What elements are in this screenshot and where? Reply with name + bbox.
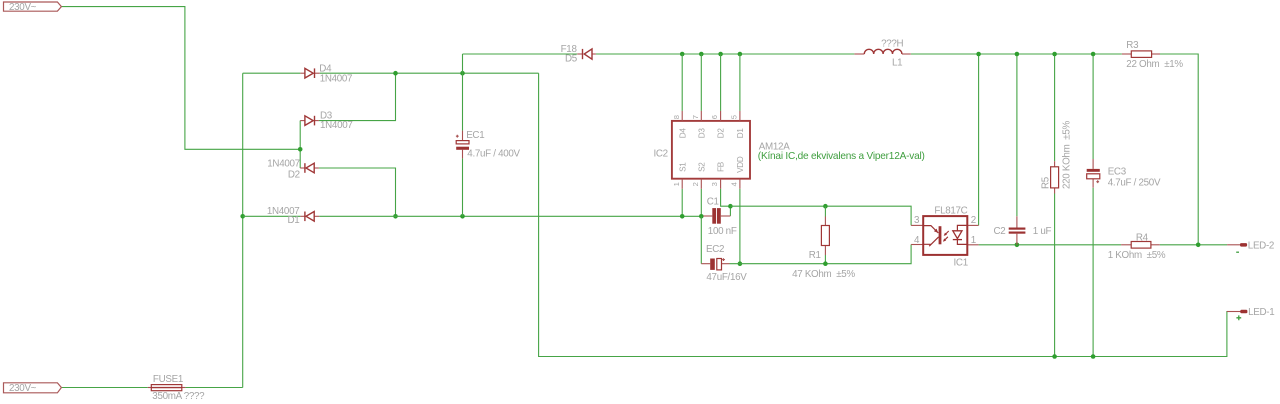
node drain rail junction pin5 <box>738 52 743 57</box>
svg-text:1 uF: 1 uF <box>1033 226 1052 237</box>
node D2/D1 junction <box>393 214 398 219</box>
svg-text:LED-2: LED-2 <box>1248 240 1274 251</box>
svg-text:???H: ???H <box>881 38 903 49</box>
pin 1 stub S1 <box>672 162 688 189</box>
wire left AC2 vertical from D4 line to fuse line <box>242 73 244 387</box>
svg-text:R1: R1 <box>809 250 821 261</box>
pin 2 stub IC1 <box>967 224 978 226</box>
svg-text:FL817C: FL817C <box>934 206 967 217</box>
wire D2 anode down to D1 line <box>319 168 396 216</box>
wire R4 right to LED-2 flag <box>1160 244 1227 246</box>
wire top switch rail from EC1 corner to D5 <box>463 53 578 55</box>
pin 8 stub D4 <box>672 111 688 138</box>
node R5 bottom rail junction <box>1052 354 1057 359</box>
resistor R5 220 KOhm <box>1040 120 1072 193</box>
wire C2 riser from rail <box>1016 54 1018 216</box>
node R3 branch on LED line <box>1196 243 1201 248</box>
wire FB net to R1 and opto pin3 <box>730 206 911 225</box>
wire IC2 S2 to ground bus <box>700 189 702 217</box>
wire D3 cathode up to D4 rail <box>319 73 396 120</box>
optocoupler IC1 body <box>923 216 967 255</box>
svg-text:4: 4 <box>914 235 920 246</box>
svg-text:1N4007: 1N4007 <box>320 74 353 85</box>
diode D3 1N4007 <box>300 110 352 131</box>
pin 5 stub D1 <box>730 111 746 138</box>
svg-text:S2: S2 <box>697 162 706 172</box>
supply flag 230V~ top <box>4 2 62 11</box>
diode D5 (F18) <box>561 44 596 65</box>
svg-text:D3: D3 <box>697 128 706 139</box>
wire D4 anode line from left vertical <box>243 72 301 74</box>
op-amp IC2 AM12A box <box>653 121 924 179</box>
inductor L1 ???H <box>854 38 910 68</box>
node R5 rail junction <box>1052 52 1057 57</box>
svg-text:4: 4 <box>730 182 739 186</box>
svg-text:D2: D2 <box>288 170 300 181</box>
wire EC3 bottom to LED- rail <box>1092 188 1094 357</box>
svg-text:8: 8 <box>672 115 681 119</box>
resistor R4 1 KOhm <box>1108 232 1166 261</box>
node FB/C1 junction <box>728 204 733 209</box>
diode D1 1N4007 <box>267 206 319 226</box>
wire from 230V~ top flag down-right to bridge node <box>61 7 300 150</box>
wire vertical D3 anode to D2 cathode branch <box>299 121 301 168</box>
svg-text:5: 5 <box>730 115 739 119</box>
capacitor EC2 47uF/16V <box>701 244 747 283</box>
svg-text:(Kínai IC,de ekvivalens a Vipe: (Kínai IC,de ekvivalens a Viper12A-val) <box>758 151 925 162</box>
wire EC3 riser from rail <box>1092 54 1094 159</box>
wire EC1 branch vertical lower <box>462 158 464 216</box>
node S1 junction <box>680 214 685 219</box>
svg-text:2: 2 <box>971 215 976 226</box>
svg-text:R5: R5 <box>1040 176 1051 189</box>
capacitor EC3 4.7uF/250V <box>1087 159 1161 189</box>
wire 230V~ bottom flag to fuse <box>61 387 147 389</box>
node EC1 bottom junction <box>460 214 465 219</box>
node AC2/D1 junction <box>240 214 245 219</box>
pin 4 stub VDD <box>730 156 746 189</box>
connector pin LED-1 <box>1227 307 1274 320</box>
svg-text:IC2: IC2 <box>653 148 667 159</box>
pin 3 stub FB <box>710 161 726 189</box>
wire D4 cathode rail to corner <box>320 72 539 74</box>
svg-text:IC1: IC1 <box>954 257 968 268</box>
svg-text:R3: R3 <box>1126 40 1139 51</box>
svg-text:1 KOhm ±5%: 1 KOhm ±5% <box>1108 250 1166 261</box>
svg-text:D1: D1 <box>287 215 299 226</box>
svg-text:1N4007: 1N4007 <box>320 120 353 131</box>
node drain rail junction pin7 <box>699 52 704 57</box>
pin 1 stub IC1 <box>967 244 978 246</box>
svg-text:FUSE1: FUSE1 <box>153 374 183 385</box>
wire R1 bottom lead green <box>824 255 826 264</box>
node opto riser rail junction <box>976 52 981 57</box>
wire IC2 D3 riser <box>700 54 702 111</box>
svg-text:47 KOhm ±5%: 47 KOhm ±5% <box>792 269 855 280</box>
capacitor C2 1uF <box>993 216 1051 245</box>
svg-text:FB: FB <box>717 161 726 172</box>
svg-text:7: 7 <box>691 115 700 119</box>
svg-text:47uF/16V: 47uF/16V <box>706 272 747 283</box>
svg-text:EC3: EC3 <box>1108 167 1127 178</box>
svg-text:EC1: EC1 <box>466 130 484 141</box>
svg-text:4.7uF / 250V: 4.7uF / 250V <box>1108 178 1161 189</box>
node R1 top junction <box>823 204 828 209</box>
svg-text:S1: S1 <box>678 162 687 172</box>
wire IC2 VDD pin down to VDD net <box>739 189 741 264</box>
wire negative bus D1 to C1 <box>319 215 703 217</box>
pin 7 stub D3 <box>691 111 707 138</box>
resistor R3 22 Ohm <box>1122 40 1184 70</box>
wire opto pin2 riser to rail <box>978 54 980 225</box>
wire VDD net to opto pin4 <box>730 245 912 264</box>
diode D4 1N4007 <box>300 64 352 85</box>
node C2 rail junction <box>1015 52 1020 57</box>
node R1 bottom junction <box>823 261 828 266</box>
wire positive bus down from D4 rail corner to bottom rail <box>539 73 1241 356</box>
svg-text:LED-1: LED-1 <box>1248 307 1274 318</box>
wire EC2 left plate branch from S2 node <box>700 216 702 263</box>
wire R5 riser from rail <box>1054 54 1056 161</box>
svg-text:220 KOhm ±5%: 220 KOhm ±5% <box>1062 120 1073 189</box>
pin 3 stub IC1 <box>911 224 923 226</box>
wire rail L1 to R3 <box>911 53 1122 55</box>
svg-text:D4: D4 <box>678 128 687 139</box>
wire IC2 D4 riser <box>681 54 683 111</box>
connector pin LED-2 <box>1227 240 1274 252</box>
resistor R1 47 KOhm <box>792 217 855 281</box>
svg-text:350mA ????: 350mA ???? <box>152 391 205 402</box>
wire R5 bottom to LED- rail <box>1054 194 1056 357</box>
svg-text:230V~: 230V~ <box>9 2 37 13</box>
node VDD/EC2 junction <box>738 261 743 266</box>
svg-text:L1: L1 <box>892 57 902 68</box>
node S2 junction <box>699 214 704 219</box>
fuse FUSE1 <box>148 374 205 402</box>
svg-text:D5: D5 <box>565 54 578 65</box>
svg-text:22 Ohm ±1%: 22 Ohm ±1% <box>1126 59 1183 70</box>
node AC1 junction <box>298 147 303 152</box>
svg-text:3: 3 <box>710 182 719 186</box>
svg-text:C1: C1 <box>707 196 719 207</box>
svg-text:EC2: EC2 <box>706 244 724 255</box>
wire rail R3 to right corner down to LED line <box>1160 54 1198 245</box>
svg-text:1: 1 <box>971 235 976 246</box>
capacitor C1 100nF <box>703 196 737 237</box>
svg-text:6: 6 <box>710 115 719 119</box>
wire R1 top lead green <box>824 206 826 216</box>
wire D1 anode line <box>243 215 301 217</box>
wire rail D5 to L1 <box>596 53 855 55</box>
wire LED feedback line from opto pin1 to R4 <box>979 244 1122 246</box>
svg-text:R4: R4 <box>1136 232 1149 243</box>
wire fuse to AC2 vertical <box>185 387 242 389</box>
wire IC2 FB pin to FB net <box>721 189 731 206</box>
svg-text:1N4007: 1N4007 <box>267 159 300 170</box>
capacitor EC1 4.7uF/400V <box>456 130 521 160</box>
diode D2 1N4007 <box>267 159 319 181</box>
pin 4 stub IC1 <box>911 244 923 246</box>
svg-text:D2: D2 <box>717 128 726 139</box>
svg-text:3: 3 <box>914 215 920 226</box>
wire C1 right plate up to FB node <box>729 206 731 216</box>
node EC1 top junction <box>460 71 465 76</box>
wire IC2 D1 riser <box>739 54 741 111</box>
wire IC2 S1 to ground bus <box>681 189 683 217</box>
svg-text:VDD: VDD <box>736 156 745 173</box>
svg-text:2: 2 <box>691 182 700 186</box>
node EC3 bottom rail junction <box>1091 354 1096 359</box>
pin 2 stub S2 <box>691 162 707 189</box>
wire IC2 D2 riser <box>720 54 722 111</box>
supply flag 230V~ bottom <box>4 383 62 393</box>
node drain rail junction pin8 <box>680 52 685 57</box>
node D3/D4 cathode junction <box>393 71 398 76</box>
wire EC1 branch vertical upper <box>462 54 464 131</box>
svg-text:4.7uF / 400V: 4.7uF / 400V <box>467 149 520 160</box>
node drain rail junction pin6 <box>718 52 723 57</box>
svg-text:230V~: 230V~ <box>9 383 37 394</box>
svg-text:C2: C2 <box>993 226 1005 237</box>
svg-text:100 nF: 100 nF <box>708 226 737 237</box>
node EC3 rail junction <box>1091 52 1096 57</box>
svg-text:1: 1 <box>672 182 681 186</box>
optocoupler IC1 FL817C <box>911 206 979 269</box>
node C2 bottom junction <box>1015 243 1020 248</box>
svg-text:D1: D1 <box>736 128 745 139</box>
pin 6 stub D2 <box>710 111 726 138</box>
